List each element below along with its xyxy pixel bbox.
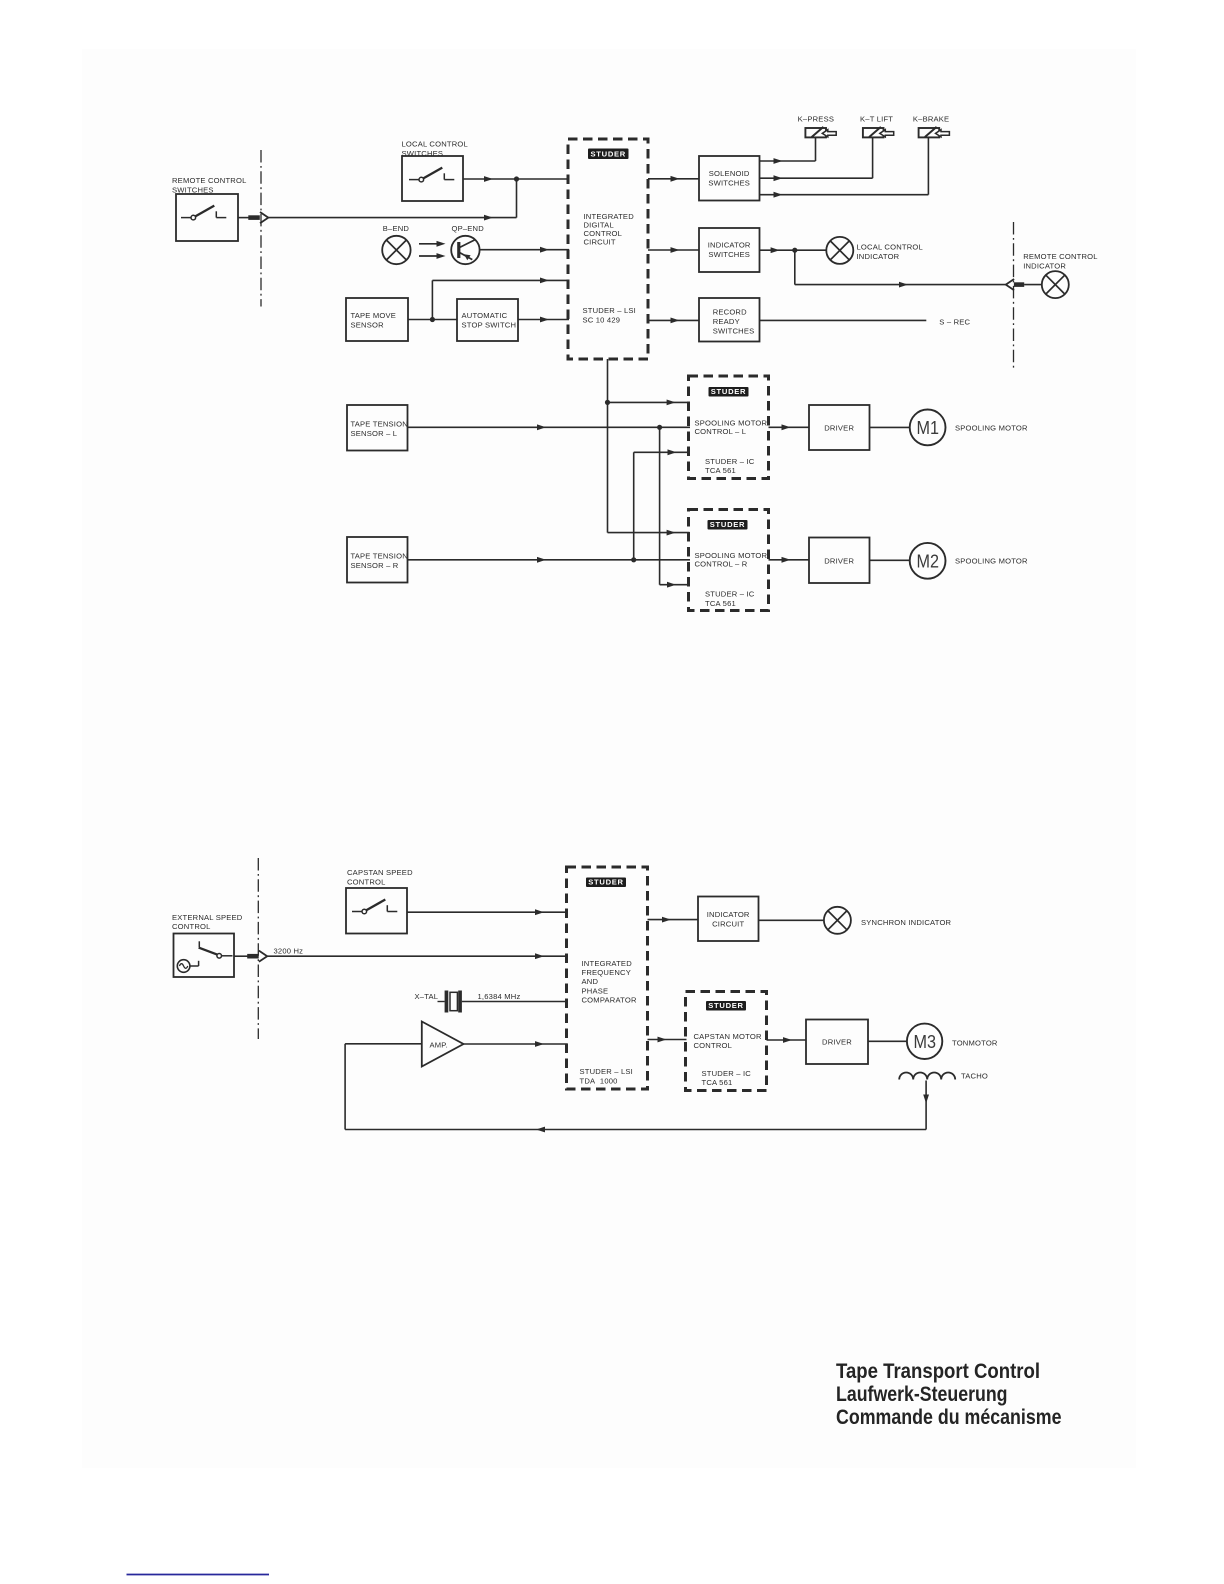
svg-text:SPOOLING MOTOR: SPOOLING MOTOR — [955, 423, 1028, 432]
text U1 INTEGRATED DIGITAL CONTROL CIRCUIT — [584, 212, 635, 247]
svg-text:S – REC: S – REC — [939, 317, 970, 326]
svg-text:CONTROL – R: CONTROL – R — [695, 560, 748, 569]
svg-text:SENSOR – R: SENSOR – R — [351, 561, 399, 570]
blue footer rule — [127, 1574, 270, 1576]
wire IC1 to solenoid switches — [648, 176, 699, 182]
STUDER logo U3 — [708, 520, 748, 530]
STUDER logo U5 — [706, 1001, 746, 1011]
svg-text:STUDER: STUDER — [711, 387, 746, 396]
box INDICATOR SWITCHES — [699, 228, 760, 272]
svg-text:3200 Hz: 3200 Hz — [274, 947, 304, 956]
lamp LOCAL CONTROL INDICATOR — [826, 237, 853, 264]
wire IC2 to capstan motor control — [648, 1037, 687, 1043]
svg-text:SPOOLING MOTOR: SPOOLING MOTOR — [955, 557, 1028, 566]
wire driver A4 to motor M3 — [868, 1040, 907, 1042]
solenoid valve K&#8211;T LIFT symbol — [863, 128, 884, 137]
text U5 CAPSTAN MOTOR CONTROL — [694, 1032, 762, 1050]
box RECORD READY SWITCHES — [699, 298, 760, 342]
box TAPE TENSION SENSOR - L — [347, 405, 408, 451]
box AUTOMATIC STOP SWITCH — [457, 299, 518, 341]
svg-text:SWITCHES: SWITCHES — [708, 179, 750, 188]
node junction local/remote — [514, 176, 519, 181]
svg-text:EXTERNAL SPEED: EXTERNAL SPEED — [172, 913, 243, 922]
wire indicator switches to local control indicator lamp — [760, 247, 827, 253]
wire remote switches to connector — [238, 217, 249, 219]
crystal X1 — [438, 991, 462, 1013]
label EXTERNAL SPEED CONTROL — [172, 913, 243, 931]
svg-text:CIRCUIT: CIRCUIT — [584, 237, 616, 246]
svg-text:STUDER – IC: STUDER – IC — [702, 1069, 752, 1078]
svg-text:CONTROL: CONTROL — [347, 877, 386, 886]
svg-text:M1: M1 — [917, 417, 940, 438]
svg-text:SENSOR – L: SENSOR – L — [351, 429, 398, 438]
op-amp A3 AMP triangle — [422, 1022, 464, 1067]
STUDER logo U4 — [586, 877, 626, 887]
label LOCAL CONTROL INDICATOR — [857, 242, 923, 260]
svg-text:INDICATOR: INDICATOR — [857, 252, 900, 261]
wire driver A1 to motor M1 — [870, 426, 910, 428]
label LOCAL CONTROL SWITCHES — [402, 139, 468, 158]
svg-text:STUDER – IC: STUDER – IC — [705, 457, 755, 466]
text U5 STUDER - IC TCA 561 — [702, 1069, 752, 1087]
wire to spooling motor control R — [608, 530, 690, 536]
wire driver A2 to motor M2 — [870, 559, 910, 561]
svg-text:CONTROL – L: CONTROL – L — [695, 427, 747, 436]
wire U3 to driver A2 — [769, 557, 810, 563]
wire sensor R cross to U2 — [634, 449, 690, 559]
svg-text:SC 10 429: SC 10 429 — [583, 316, 621, 325]
svg-text:TAPE MOVE: TAPE MOVE — [351, 311, 397, 320]
connector J2 remote indicator — [1006, 279, 1024, 290]
op-amp U1 INTEGRATED DIGITAL CONTROL CIRCUIT dashed block — [568, 139, 648, 359]
dash-dot boundary line right (remote indicator) — [1013, 222, 1015, 368]
lamp REMOTE CONTROL INDICATOR — [1042, 271, 1069, 298]
svg-text:STUDER – IC: STUDER – IC — [705, 590, 755, 599]
node spool L takeoff — [605, 400, 610, 405]
node tape move branch — [430, 317, 435, 322]
text U4 INTEGRATED FREQUENCY AND PHASE COMPARATOR — [582, 959, 637, 1005]
svg-text:INDICATOR: INDICATOR — [1023, 262, 1066, 271]
svg-text:REMOTE CONTROL: REMOTE CONTROL — [172, 176, 247, 185]
wire IC1 down to spooling controls — [607, 359, 609, 533]
svg-text:FREQUENCY: FREQUENCY — [582, 968, 631, 977]
svg-text:TCA 561: TCA 561 — [705, 466, 736, 475]
svg-text:TONMOTOR: TONMOTOR — [952, 1038, 998, 1047]
lamp B-END — [382, 236, 410, 264]
svg-text:STUDER: STUDER — [591, 149, 626, 158]
svg-text:DRIVER: DRIVER — [822, 1038, 852, 1047]
svg-text:AND: AND — [582, 977, 599, 986]
STUDER logo U2 — [709, 387, 749, 397]
switch S1 REMOTE CONTROL SWITCHES box — [176, 194, 238, 241]
svg-text:Tape Transport Control: Tape Transport Control — [836, 1359, 1040, 1383]
svg-text:INDICATOR: INDICATOR — [708, 241, 751, 250]
svg-text:K–BRAKE: K–BRAKE — [913, 114, 949, 123]
svg-text:STUDER – LSI: STUDER – LSI — [583, 306, 636, 315]
wire tape move sensor to automatic stop switch — [408, 319, 457, 321]
wire U5 to driver A4 — [767, 1037, 807, 1043]
svg-text:1,6384 MHz: 1,6384 MHz — [478, 992, 521, 1001]
svg-text:LOCAL CONTROL: LOCAL CONTROL — [857, 242, 923, 251]
svg-text:QP–END: QP–END — [452, 224, 485, 233]
arrows B-END to QP-END — [419, 241, 446, 259]
label REMOTE CONTROL INDICATOR — [1023, 252, 1098, 271]
text U2 STUDER - IC TCA 561 — [705, 457, 755, 475]
svg-text:DRIVER: DRIVER — [824, 423, 854, 432]
svg-text:TCA 561: TCA 561 — [705, 599, 736, 608]
svg-text:Laufwerk-Steuerung: Laufwerk-Steuerung — [836, 1382, 1008, 1406]
wire indicator circuit to synchron lamp — [759, 919, 825, 921]
svg-text:TDA 1000: TDA 1000 — [580, 1076, 618, 1085]
wire 3200 Hz to IC2 — [267, 953, 567, 959]
box TAPE MOVE SENSOR — [346, 298, 408, 341]
svg-text:K–PRESS: K–PRESS — [798, 114, 834, 123]
svg-text:CAPSTAN SPEED: CAPSTAN SPEED — [347, 868, 413, 877]
svg-text:SWITCHES: SWITCHES — [708, 250, 750, 259]
wire to spooling motor control L — [608, 400, 690, 406]
svg-text:SWITCHES: SWITCHES — [713, 326, 755, 335]
wire amp to IC2 — [464, 1041, 568, 1047]
svg-text:Commande du mécanisme: Commande du mécanisme — [836, 1405, 1062, 1429]
node sensor L cross branch — [657, 425, 662, 430]
wire tape tension sensor L to U2 — [408, 424, 691, 430]
svg-text:STOP SWITCH: STOP SWITCH — [462, 321, 517, 330]
svg-text:SOLENOID: SOLENOID — [709, 169, 750, 178]
motor M2 — [910, 543, 946, 579]
text U3 SPOOLING MOTOR CONTROL - R — [695, 551, 768, 569]
box DRIVER A2 — [809, 538, 870, 584]
connector J3 external speed — [247, 951, 267, 962]
svg-text:K–T LIFT: K–T LIFT — [860, 114, 893, 123]
svg-text:TAPE TENSION: TAPE TENSION — [351, 419, 408, 428]
label REMOTE CONTROL SWITCHES — [172, 176, 247, 195]
svg-text:CONTROL: CONTROL — [172, 922, 211, 931]
box DRIVER A4 — [806, 1020, 868, 1065]
node sensor R cross branch — [631, 557, 636, 562]
op-amp U3 SPOOLING MOTOR CONTROL R dashed block — [689, 510, 769, 611]
wire U2 to driver A1 — [769, 424, 810, 430]
node indicator branch — [792, 248, 797, 253]
svg-text:M3: M3 — [914, 1031, 937, 1052]
switch S4 EXTERNAL SPEED CONTROL box — [174, 934, 235, 978]
svg-text:STUDER: STUDER — [588, 877, 623, 886]
wire external speed control to connector — [234, 955, 248, 957]
text U4 STUDER - LSI TDA 1000 — [580, 1067, 633, 1085]
wire connector to remote indicator lamp — [1024, 284, 1042, 286]
svg-text:LOCAL CONTROL: LOCAL CONTROL — [402, 139, 468, 148]
text U2 SPOOLING MOTOR CONTROL - L — [695, 419, 768, 437]
wire solenoid switches to K-BRAKE — [760, 137, 929, 197]
svg-text:STUDER: STUDER — [710, 520, 745, 529]
solenoid valve K&#8211;PRESS symbol — [805, 128, 826, 137]
box TAPE TENSION SENSOR - R — [347, 537, 408, 583]
wire tape tension sensor R to U3 — [408, 557, 691, 563]
svg-text:REMOTE CONTROL: REMOTE CONTROL — [1023, 252, 1098, 261]
wire to remote control indicator — [795, 250, 1006, 287]
svg-text:TCA 561: TCA 561 — [702, 1078, 733, 1087]
svg-text:RECORD: RECORD — [713, 307, 747, 316]
wire solenoid switches to K-PRESS — [760, 137, 816, 164]
wire sensor L cross to U3 — [660, 427, 690, 587]
svg-text:CONTROL: CONTROL — [694, 1041, 733, 1050]
svg-text:TAPE TENSION: TAPE TENSION — [351, 551, 408, 560]
svg-text:DRIVER: DRIVER — [824, 556, 854, 565]
wire local switches to IC1 — [463, 176, 569, 182]
STUDER logo U1 — [588, 149, 629, 160]
wire tacho feedback down — [923, 1081, 929, 1130]
box DRIVER A1 — [809, 405, 870, 450]
op-amp U4 INTEGRATED FREQUENCY AND PHASE COMPARATOR dashed block — [567, 867, 648, 1089]
wire tacho feedback to amp — [345, 1044, 926, 1133]
dash-dot boundary line lower (external speed) — [257, 858, 259, 1039]
title Tape Transport Control — [836, 1359, 1062, 1429]
text U3 STUDER - IC TCA 561 — [705, 590, 755, 608]
wire IC2 to indicator circuit — [648, 917, 699, 923]
svg-text:M2: M2 — [917, 550, 940, 571]
op-amp U2 SPOOLING MOTOR CONTROL L dashed block — [689, 376, 769, 479]
op-amp U5 CAPSTAN MOTOR CONTROL dashed block — [686, 992, 767, 1091]
svg-text:CIRCUIT: CIRCUIT — [712, 919, 744, 928]
svg-text:INDICATOR: INDICATOR — [707, 910, 750, 919]
svg-text:X–TAL: X–TAL — [415, 992, 439, 1001]
svg-text:COMPARATOR: COMPARATOR — [582, 996, 637, 1005]
svg-text:PHASE: PHASE — [582, 986, 609, 995]
motor M3 — [907, 1024, 942, 1059]
svg-text:SENSOR: SENSOR — [351, 321, 385, 330]
svg-text:READY: READY — [713, 317, 740, 326]
label CAPSTAN SPEED CONTROL — [347, 868, 413, 887]
wire capstan speed control to IC2 — [408, 909, 568, 915]
solenoid valve K&#8211;BRAKE symbol — [919, 128, 940, 137]
switch S3 CAPSTAN SPEED CONTROL box — [346, 888, 407, 934]
svg-text:B–END: B–END — [383, 224, 410, 233]
wire record ready switches S-REC — [760, 319, 927, 321]
lamp SYNCHRON INDICATOR — [824, 907, 851, 934]
svg-text:AUTOMATIC: AUTOMATIC — [462, 311, 508, 320]
inductor TACHO coil — [899, 1073, 955, 1080]
box SOLENOID SWITCHES — [699, 156, 760, 201]
dash-dot boundary line left (remote/local) — [260, 150, 262, 307]
wire remote line to node under local switches — [269, 179, 517, 221]
box INDICATOR CIRCUIT — [698, 897, 759, 942]
switch S2 LOCAL CONTROL SWITCHES box — [402, 156, 463, 201]
scanned sheet area — [82, 49, 1136, 1468]
wire solenoid switches to K-T LIFT — [760, 137, 873, 181]
connector J1 on remote line — [248, 212, 268, 223]
wire crystal to IC2 — [462, 1001, 568, 1003]
wire automatic stop switch to IC1 — [518, 317, 569, 323]
svg-text:STUDER – LSI: STUDER – LSI — [580, 1067, 633, 1076]
motor M1 — [910, 410, 946, 446]
wire QP-END to IC1 — [480, 247, 569, 253]
transistor QP-END sensor — [451, 236, 479, 264]
wire IC1 to indicator switches — [648, 247, 699, 253]
text U1 STUDER - LSI SC 10 429 — [583, 306, 636, 325]
svg-text:STUDER: STUDER — [708, 1001, 743, 1010]
svg-text:TACHO: TACHO — [961, 1071, 988, 1080]
wire IC1 to record ready switches — [648, 318, 699, 324]
svg-text:INTEGRATED: INTEGRATED — [582, 959, 633, 968]
wire tape move branch to IC1 — [432, 278, 569, 320]
svg-text:SYNCHRON INDICATOR: SYNCHRON INDICATOR — [861, 918, 952, 927]
svg-text:AMP.: AMP. — [430, 1041, 448, 1050]
